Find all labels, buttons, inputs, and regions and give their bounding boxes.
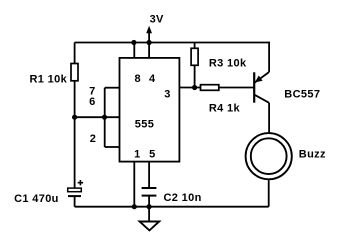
svg-text:4: 4 — [149, 73, 156, 85]
junction dot R3/pin3/R4 — [192, 85, 197, 90]
capacitor C1 top plate (electrolytic box) — [68, 188, 82, 192]
buzzer inner circle — [251, 138, 287, 174]
svg-text:3: 3 — [164, 88, 170, 100]
wire: pin 1 stub to rail — [133, 162, 135, 207]
wire: R3 branch vertical — [194, 43, 196, 88]
svg-text:5: 5 — [149, 149, 155, 161]
capacitor C1 plus sign — [78, 180, 83, 185]
wire: collector to buzzer — [268, 103, 270, 133]
junction dot C2/rail/ground — [147, 204, 152, 209]
svg-text:8: 8 — [134, 73, 140, 85]
svg-text:1: 1 — [134, 149, 140, 161]
wire: emitter to rail — [268, 42, 270, 72]
svg-text:555: 555 — [135, 119, 154, 131]
wire: pin 2 stub — [105, 146, 120, 148]
capacitor C1 bottom plate — [68, 195, 81, 197]
transistor Q1 BC557 base bar — [253, 72, 255, 102]
power 3V arrow — [148, 32, 150, 43]
junction dot link/pin6 — [102, 115, 107, 120]
transistor collector diagonal — [254, 95, 269, 103]
svg-text:C1 470u: C1 470u — [14, 193, 59, 205]
wire: pin 7 stub — [105, 87, 120, 89]
svg-text:R4 1k: R4 1k — [209, 102, 241, 114]
wire: link pin7-pin6-pin2 vertical — [104, 88, 106, 147]
wire: buzzer bottom to rail — [268, 180, 270, 207]
resistor R3 — [191, 48, 198, 65]
wire: pin 8 stub to rail — [133, 43, 135, 58]
IC U1 555 box — [120, 58, 180, 162]
junction dot R1/pin6 node — [72, 115, 77, 120]
resistor R4 — [201, 85, 219, 91]
wire: pin 6 stub to R1 node — [75, 116, 120, 118]
svg-text:6: 6 — [89, 96, 95, 108]
wire: left branch vertical (rail to C1) — [74, 43, 76, 189]
junction dot rail/pin8 — [131, 40, 136, 45]
buzzer outer circle — [246, 133, 292, 179]
capacitor C2 bottom plate — [142, 195, 157, 197]
svg-text:3V: 3V — [150, 13, 164, 25]
wire: top 3V rail — [75, 42, 270, 44]
ground symbol triangle — [140, 222, 160, 231]
wire: C1 to rail — [74, 196, 76, 207]
capacitor C2 top plate — [142, 187, 157, 189]
transistor emitter diagonal — [254, 72, 269, 83]
svg-text:C2 10n: C2 10n — [164, 192, 202, 204]
wire: pin 4 stub to rail — [148, 43, 150, 58]
svg-text:2: 2 — [90, 133, 96, 145]
junction dot rail/pin4/3V — [147, 40, 152, 45]
resistor R1 — [71, 64, 78, 81]
wire: bottom ground rail — [75, 206, 269, 208]
ground stem — [148, 207, 150, 222]
transistor emitter arrow (PNP) — [255, 76, 263, 83]
wire: pin 5 stub to C2 — [148, 162, 150, 188]
wire: pin 3 output to base — [179, 87, 254, 89]
svg-text:R3 10k: R3 10k — [209, 57, 247, 69]
svg-text:BC557: BC557 — [284, 88, 320, 100]
wire: C2 to rail — [148, 196, 150, 207]
svg-text:Buzz: Buzz — [299, 149, 326, 161]
junction dot pin1/rail — [132, 204, 137, 209]
svg-text:R1 10k: R1 10k — [30, 74, 68, 86]
